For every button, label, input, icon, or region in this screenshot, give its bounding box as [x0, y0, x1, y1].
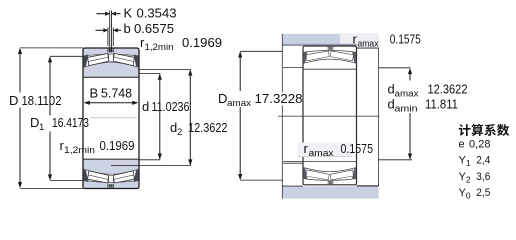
- roller bottom-left: [88, 171, 109, 183]
- right groove top: [327, 46, 329, 51]
- bore line bottom half: [283, 161, 357, 163]
- cage pocket shadow top-right: [134, 55, 139, 67]
- svg-text:2: 2: [466, 174, 471, 184]
- shaft washer edge line: [378, 48, 380, 186]
- svg-text:0.1575: 0.1575: [390, 32, 421, 47]
- svg-text:11.811: 11.811: [425, 97, 458, 112]
- svg-text:amax: amax: [395, 89, 419, 100]
- lubrication groove bottom: [108, 186, 113, 189]
- right cage shadow bottom-right: [352, 168, 356, 179]
- outer ring bottom half: [83, 180, 139, 189]
- svg-text:e: e: [459, 138, 465, 150]
- right roller bottom-right: [330, 170, 353, 180]
- inner ring bottom half: [83, 159, 139, 174]
- dim damax/damin: vertical line: [409, 69, 411, 81]
- roller top-left: [88, 54, 109, 66]
- inner ring top half: [83, 62, 139, 77]
- svg-text:2,4: 2,4: [476, 155, 490, 167]
- dim damax: extension lines: [379, 67, 411, 69]
- cage pocket shadow bottom-left: [84, 170, 89, 182]
- svg-text:K: K: [124, 6, 133, 21]
- svg-text:12.3622: 12.3622: [428, 82, 468, 97]
- svg-text:0,28: 0,28: [469, 138, 491, 150]
- right roller top-left: [306, 51, 329, 61]
- right cage shadow top-right: [352, 52, 356, 63]
- svg-text:1: 1: [466, 158, 471, 168]
- housing outline bottom edge right of bearing: [357, 47, 379, 49]
- right roller top-right: [330, 51, 353, 61]
- drawing left boundary line: [281, 34, 283, 199]
- shaft section bottom strip: [282, 186, 378, 198]
- dim D1: extension lines: [50, 55, 83, 57]
- svg-text:amax: amax: [227, 98, 251, 109]
- svg-text:0.1969: 0.1969: [100, 138, 135, 153]
- bore line top half: [303, 68, 357, 70]
- svg-text:amax: amax: [309, 148, 334, 159]
- svg-text:0.3543: 0.3543: [137, 6, 177, 21]
- svg-text:amax: amax: [358, 39, 379, 50]
- right roller bottom-left: [306, 170, 329, 180]
- dim K: extension lines and arrows: [109, 11, 111, 53]
- inner raceway top: [303, 59, 357, 63]
- roller top-right: [113, 54, 134, 66]
- dim B: line with arrows: [89, 102, 133, 104]
- svg-text:11.0236: 11.0236: [152, 99, 190, 114]
- svg-text:16.4173: 16.4173: [52, 115, 89, 130]
- dim D1: vertical line: [49, 58, 51, 116]
- dim D: extension lines: [20, 47, 83, 49]
- table header 计算系数: [459, 124, 471, 136]
- guide ring bottom: [109, 175, 114, 182]
- dim Damax: extension lines: [240, 50, 282, 52]
- svg-text:amin: amin: [395, 104, 418, 115]
- svg-text:2,5: 2,5: [476, 187, 490, 199]
- guide ring top: [109, 54, 114, 61]
- cage pocket shadow top-left: [84, 55, 89, 67]
- svg-text:D: D: [30, 115, 39, 130]
- bore line bottom half left bearing: [84, 158, 138, 160]
- inner raceway bottom: [303, 168, 357, 172]
- dim D: vertical line: [19, 50, 21, 93]
- bearing cross-section left: outer ring top half: [83, 48, 139, 57]
- housing section top strip: [282, 34, 356, 44]
- svg-text:2: 2: [177, 127, 182, 138]
- dim d2: vertical line, arrows, extension lines: [189, 70, 191, 164]
- svg-text:1,2min: 1,2min: [145, 42, 174, 53]
- right groove bottom: [327, 181, 329, 186]
- outer raceway arc top: [303, 51, 357, 53]
- dim b: extension lines and arrows: [107, 28, 109, 47]
- right bearing body: [303, 46, 357, 185]
- right cage shadow bottom-left: [304, 168, 308, 179]
- svg-text:B: B: [90, 86, 99, 101]
- svg-text:0.1969: 0.1969: [182, 35, 222, 50]
- bearing outline: [83, 48, 139, 189]
- svg-text:D: D: [9, 93, 18, 108]
- svg-text:1,2min: 1,2min: [64, 145, 95, 156]
- svg-text:17.3228: 17.3228: [255, 91, 303, 106]
- lubrication groove top: [108, 48, 113, 51]
- dim d: vertical line, arrows, extension lines: [159, 75, 161, 159]
- svg-text:0.6575: 0.6575: [134, 21, 174, 36]
- svg-text:3,6: 3,6: [476, 171, 490, 183]
- bore line top half left bearing: [84, 76, 138, 78]
- left drawing centreline (faint): [90, 117, 137, 119]
- svg-text:b: b: [124, 21, 131, 36]
- svg-text:18.1102: 18.1102: [22, 93, 62, 108]
- label background box top right: [340, 33, 379, 44]
- cage pocket shadow bottom-right: [134, 170, 139, 182]
- roller bottom-right: [113, 171, 134, 183]
- shaft shoulder block bottom: [283, 163, 303, 185]
- label Damax background: [254, 92, 303, 105]
- svg-text:12.3622: 12.3622: [188, 120, 228, 135]
- svg-text:0: 0: [466, 191, 471, 201]
- svg-text:5.748: 5.748: [101, 86, 132, 101]
- label background bottom r_amax: [298, 143, 353, 157]
- dim Damax: vertical line: [239, 53, 241, 92]
- svg-text:0.1575: 0.1575: [341, 141, 374, 156]
- svg-text:1: 1: [39, 122, 44, 133]
- svg-text:D: D: [218, 91, 227, 106]
- housing shoulder block top: [283, 46, 303, 68]
- outer raceway arc bottom: [303, 179, 357, 181]
- svg-text:d: d: [142, 99, 149, 114]
- right cage shadow top-left: [304, 52, 308, 63]
- right drawing centreline: [278, 115, 379, 117]
